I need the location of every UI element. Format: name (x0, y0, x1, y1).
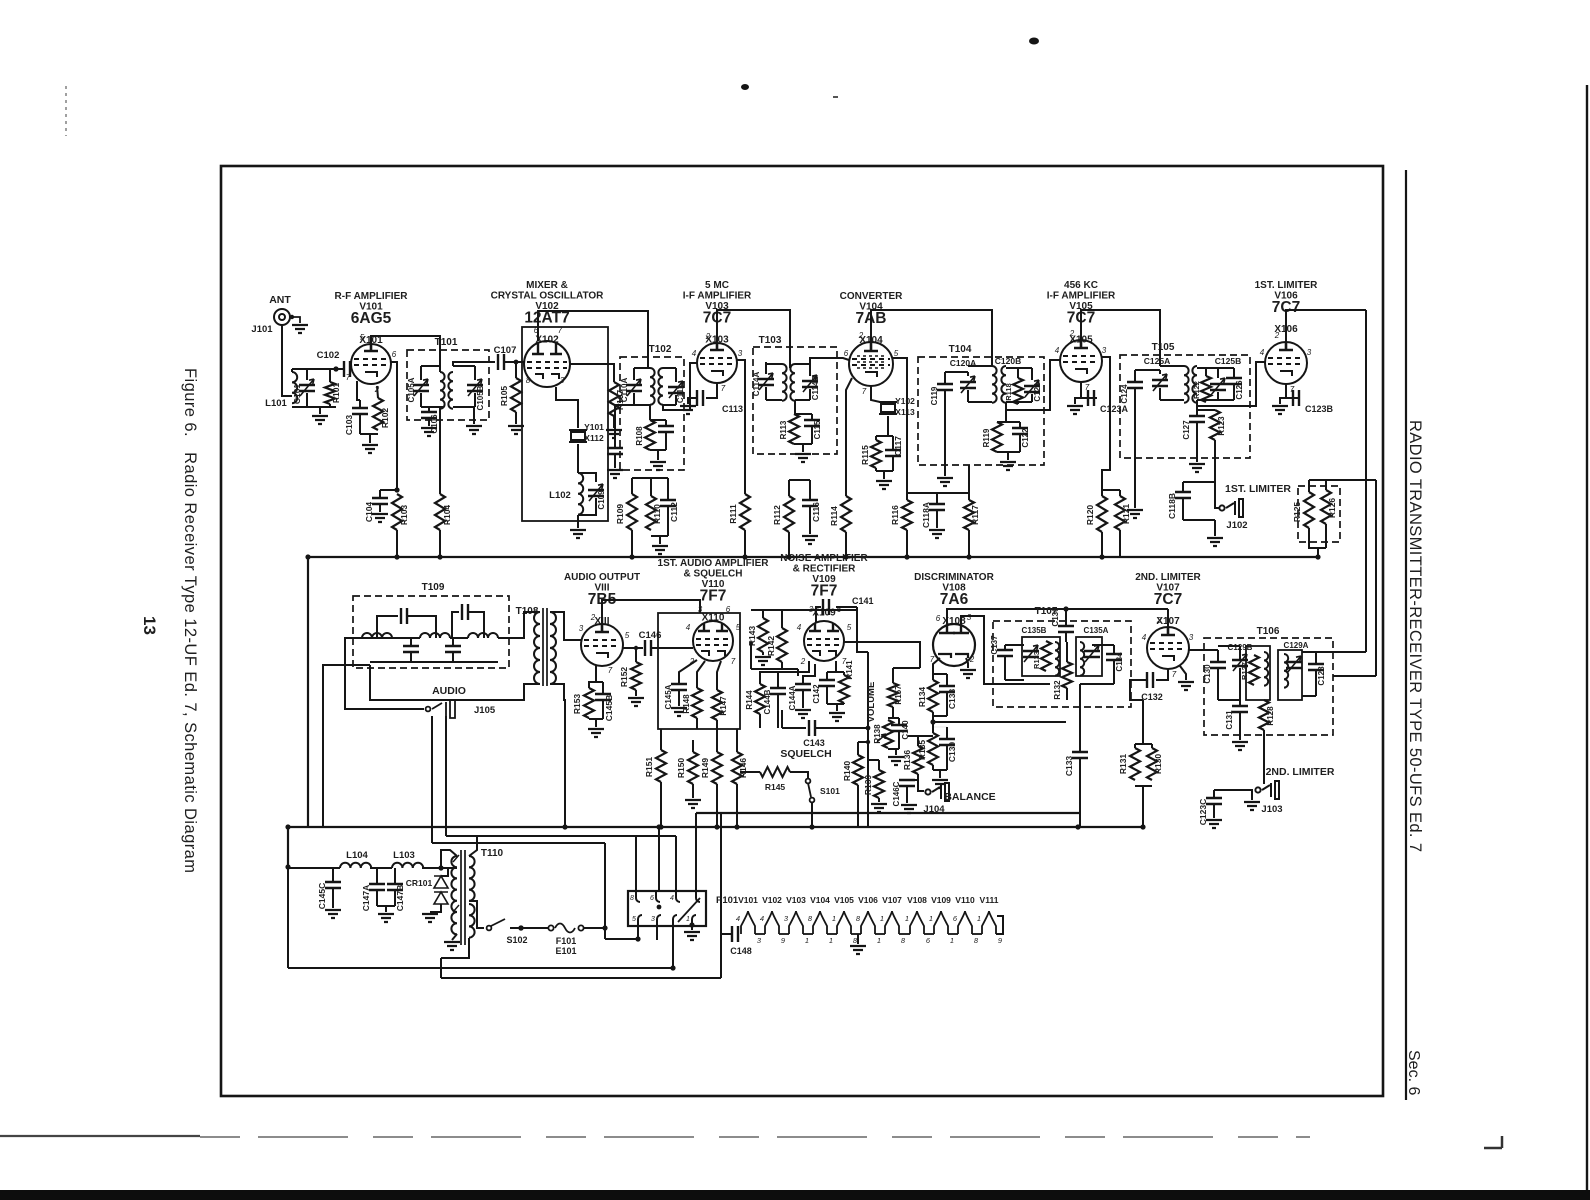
coil T104 primary (992, 366, 997, 403)
wire (602, 682, 604, 694)
svg-text:R131: R131 (1118, 754, 1128, 775)
wire (1167, 609, 1169, 627)
transformer T102 box (620, 357, 684, 470)
svg-text:C111: C111 (676, 384, 685, 403)
wire (737, 360, 745, 494)
svg-text:C125A: C125A (1144, 356, 1170, 366)
coil T102 primary (650, 368, 655, 405)
capacitor C142 (819, 680, 835, 686)
wire (843, 703, 845, 704)
wire (1113, 645, 1115, 654)
wire (997, 451, 1020, 453)
wire (595, 719, 597, 727)
wire (736, 784, 738, 827)
svg-text:I-F AMPLIFIER: I-F AMPLIFIER (683, 291, 752, 302)
svg-text:C107: C107 (494, 345, 517, 356)
wire (1302, 695, 1316, 697)
ground (850, 946, 866, 954)
wire (876, 435, 893, 437)
svg-text:4: 4 (736, 914, 740, 923)
svg-text:3: 3 (1102, 346, 1107, 355)
coil T102 secondary (658, 368, 663, 405)
wire (968, 365, 992, 367)
tube V110 7F7 (693, 621, 733, 661)
wire (1065, 609, 1067, 626)
wire (1240, 790, 1252, 800)
svg-text:R123: R123 (1217, 416, 1226, 436)
wire (906, 530, 908, 557)
wire (777, 694, 779, 728)
wire (450, 637, 468, 639)
ground (652, 546, 668, 554)
svg-text:2: 2 (1274, 331, 1280, 340)
ground (1244, 802, 1260, 810)
wire T103 to V104 (810, 358, 849, 364)
svg-text:C101: C101 (292, 384, 302, 405)
wire (469, 901, 484, 928)
wire (656, 925, 658, 940)
wire (1007, 452, 1009, 460)
volume pot arrow (877, 734, 886, 742)
wire (967, 372, 969, 376)
wire (803, 664, 815, 684)
svg-text:R125: R125 (1292, 502, 1302, 523)
wire (1183, 519, 1215, 521)
svg-text:6: 6 (726, 605, 731, 614)
capacitor C110A (variable) (626, 385, 642, 391)
wire (1119, 490, 1121, 496)
ground (606, 430, 622, 438)
wire (678, 690, 680, 706)
wire (1004, 645, 1006, 650)
svg-text:C123B: C123B (1305, 404, 1334, 414)
capacitor C123B (1293, 390, 1299, 406)
svg-text:C142: C142 (812, 684, 821, 704)
svg-text:CR101: CR101 (406, 878, 433, 888)
switch S101 (806, 779, 815, 803)
wire (1280, 398, 1293, 404)
capacitor C118B (1175, 492, 1191, 498)
converter grid screen hatch (857, 356, 885, 368)
tube V105 7C7 (1060, 340, 1102, 382)
capacitor T109 C-a (401, 608, 407, 624)
resistor R103 (392, 494, 402, 530)
svg-text:C135A: C135A (1084, 626, 1109, 635)
wire (996, 916, 1003, 934)
svg-text:DISCRIMINATOR: DISCRIMINATOR (914, 572, 994, 583)
wire (907, 492, 969, 494)
coil T107 primary (1055, 642, 1059, 676)
svg-text:C141: C141 (852, 596, 874, 606)
P101 bottom pin 7 (673, 915, 677, 925)
svg-text:V107: V107 (882, 895, 902, 905)
wire (875, 468, 877, 471)
svg-text:I-F AMPLIFIER: I-F AMPLIFIER (1047, 291, 1116, 302)
svg-text:Y102: Y102 (895, 396, 915, 406)
resistor R108 (645, 420, 655, 450)
svg-text:1: 1 (877, 936, 881, 945)
wire (1197, 367, 1218, 369)
svg-text:Sec. 6: Sec. 6 (1405, 1050, 1422, 1095)
svg-text:C125B: C125B (1215, 356, 1241, 366)
wire V101 screen down (391, 362, 397, 490)
svg-text:R111: R111 (728, 504, 738, 524)
wire (1217, 368, 1219, 378)
ground (1189, 464, 1205, 472)
svg-text:3: 3 (1307, 348, 1312, 357)
resistor R114 (841, 496, 851, 532)
wire (933, 726, 947, 728)
wire (945, 371, 968, 373)
wire (468, 612, 484, 638)
wire (469, 836, 477, 856)
svg-text:V105: V105 (834, 895, 854, 905)
svg-text:C113: C113 (722, 404, 743, 414)
wire (452, 934, 457, 940)
ground (325, 910, 341, 918)
svg-text:C132: C132 (1141, 692, 1163, 702)
tube V108 7A6 (933, 624, 975, 666)
svg-text:R103: R103 (399, 505, 409, 526)
wire (1080, 683, 1114, 685)
wire (1309, 547, 1326, 549)
wire (878, 798, 880, 802)
wire (893, 667, 920, 669)
wire (856, 607, 858, 610)
svg-text:1: 1 (905, 914, 909, 923)
wire (946, 745, 948, 770)
svg-text:3: 3 (579, 624, 584, 633)
wire (751, 668, 798, 670)
svg-text:C110A: C110A (620, 378, 629, 403)
wire (802, 444, 804, 452)
svg-text:5: 5 (632, 916, 636, 923)
ground (1207, 538, 1223, 546)
svg-text:C119: C119 (930, 386, 939, 405)
wire (777, 672, 779, 688)
svg-text:V111: V111 (980, 895, 999, 905)
wire (663, 367, 676, 369)
resistor R140 (853, 755, 863, 785)
svg-text:2ND. LIMITER: 2ND. LIMITER (1135, 572, 1201, 583)
coil T108 secondary (550, 612, 556, 684)
switch S102 (487, 919, 505, 930)
svg-text:4: 4 (670, 895, 674, 902)
wire (888, 748, 899, 750)
wire (1308, 480, 1310, 492)
coil T105 secondary (1192, 366, 1197, 403)
ground (292, 325, 308, 333)
wire (1031, 394, 1033, 402)
svg-text:T109: T109 (422, 582, 445, 593)
wire (420, 393, 422, 407)
coil T103 secondary (790, 364, 795, 401)
wire (809, 389, 811, 400)
resistor R138 (883, 720, 893, 748)
wire (396, 530, 398, 557)
wire (857, 785, 859, 827)
wire (550, 612, 581, 640)
ground (444, 942, 460, 950)
svg-text:R105: R105 (499, 386, 509, 407)
capacitor C146C (899, 780, 915, 786)
wire (474, 393, 476, 407)
capacitor C135A (variable) (1084, 651, 1100, 657)
wire (790, 772, 808, 778)
svg-text:5: 5 (625, 631, 630, 640)
svg-text:C130: C130 (1203, 664, 1212, 684)
wire (1233, 368, 1235, 378)
P101 top pin 3 (676, 892, 680, 902)
wire (1239, 668, 1241, 700)
inductor T109-1 (362, 633, 392, 638)
wire (635, 648, 637, 662)
wire (794, 400, 796, 414)
svg-text:C106: C106 (430, 414, 439, 434)
wire (827, 703, 844, 705)
capacitor C141 (823, 599, 829, 615)
wire (811, 426, 813, 444)
wire (1205, 368, 1207, 376)
wire (892, 707, 894, 718)
wire (578, 498, 596, 515)
wire (1189, 649, 1218, 651)
svg-text:T103: T103 (759, 335, 782, 346)
wire (1005, 644, 1024, 646)
wire (1197, 399, 1218, 401)
wire bus A (696, 812, 1080, 814)
wire (1075, 398, 1088, 404)
inductor T109-2 (420, 633, 450, 638)
wire (887, 416, 889, 436)
svg-text:C117: C117 (893, 436, 903, 456)
capacitor (607, 448, 623, 454)
wire (421, 406, 443, 408)
wire (1019, 434, 1021, 452)
wire (1066, 608, 1168, 610)
svg-text:NOISE AMPLIFIER: NOISE AMPLIFIER (780, 553, 868, 564)
P101 bottom pin 8 (692, 915, 696, 925)
wire (1006, 401, 1032, 403)
wire routing line (446, 835, 676, 837)
wire (1217, 650, 1219, 662)
ground (372, 514, 388, 522)
svg-text:C109: C109 (597, 490, 606, 510)
resistor R135 (928, 733, 938, 765)
wire (1119, 540, 1121, 557)
ground (312, 416, 328, 424)
svg-text:MIXER &: MIXER & (526, 280, 568, 291)
tube V103 7C7 (697, 343, 737, 383)
wire (1197, 409, 1215, 411)
resistor R152 (631, 662, 641, 690)
wire (288, 867, 340, 869)
svg-text:C138: C138 (947, 689, 957, 710)
wire tank top (292, 368, 336, 370)
wire (1156, 669, 1168, 680)
svg-text:C118A: C118A (921, 502, 931, 528)
inductor L103 (392, 863, 423, 868)
wire to P101 pin (658, 827, 660, 891)
svg-text:4: 4 (1142, 633, 1147, 642)
wire (650, 449, 666, 451)
svg-text:R128: R128 (1266, 706, 1275, 726)
wire (410, 652, 412, 662)
wire (1142, 786, 1144, 827)
svg-text:C112: C112 (669, 502, 679, 522)
resistor R112 (784, 496, 794, 532)
wire B+ bus (308, 556, 1318, 558)
capacitor C110B (variable) (668, 387, 684, 393)
wire (1325, 524, 1327, 548)
wire (421, 365, 440, 367)
svg-text:R142: R142 (766, 636, 776, 657)
wire (614, 454, 616, 468)
svg-text:C144B: C144B (763, 689, 772, 714)
capacitor C117 (885, 450, 901, 456)
antenna stub ground (292, 317, 300, 323)
wire (788, 480, 790, 496)
wire (675, 395, 677, 405)
wire (871, 386, 880, 402)
wire to P101 pin (635, 836, 637, 891)
svg-text:C118B: C118B (1167, 493, 1177, 519)
svg-text:4: 4 (686, 623, 691, 632)
capacitor C145A (671, 684, 687, 690)
wire (377, 386, 378, 398)
svg-text:R101: R101 (331, 383, 341, 404)
wire (835, 661, 837, 672)
svg-text:R120: R120 (1085, 505, 1095, 526)
svg-text:R149: R149 (700, 758, 710, 779)
coil T105 primary (1184, 366, 1189, 403)
capacitor C147A (369, 884, 385, 890)
transformer T101 box (407, 350, 489, 420)
capacitor C138 (939, 686, 955, 692)
wire (667, 506, 669, 536)
svg-text:C145B: C145B (604, 695, 614, 721)
resistor R119 (992, 422, 1002, 452)
svg-text:2: 2 (1069, 329, 1075, 338)
resistor R147 (712, 690, 722, 720)
svg-text:J101: J101 (251, 324, 273, 335)
capacitor C106 (421, 412, 437, 418)
svg-text:R127: R127 (1240, 662, 1249, 680)
svg-text:V106: V106 (858, 895, 878, 905)
svg-text:V101: V101 (738, 895, 758, 905)
wire (370, 867, 392, 869)
resistor R123 (1210, 410, 1220, 440)
wire (1183, 481, 1215, 483)
wire (944, 390, 946, 476)
wire (1239, 712, 1241, 740)
capacitor C140 (891, 725, 907, 731)
capacitor C103 (352, 408, 368, 414)
wire (946, 692, 948, 716)
svg-text:L101: L101 (265, 398, 287, 409)
wire (1196, 422, 1198, 462)
svg-text:C122: C122 (1021, 428, 1030, 448)
wire (908, 735, 933, 737)
wire (765, 362, 767, 374)
wire (515, 362, 517, 378)
T107 shield sub-box 1 (1022, 637, 1060, 676)
wire (360, 433, 378, 435)
svg-text:R151: R151 (644, 757, 654, 778)
svg-text:7: 7 (1172, 670, 1177, 679)
wire (716, 720, 718, 729)
wire (464, 850, 466, 945)
capacitor C102 (344, 361, 350, 377)
svg-text:R118: R118 (1004, 383, 1013, 401)
ground (937, 478, 953, 486)
svg-text:1: 1 (832, 914, 836, 923)
ground (795, 710, 811, 718)
svg-text:X112: X112 (584, 433, 604, 443)
P101 top pin 2 (656, 892, 660, 902)
wire (1325, 480, 1327, 490)
svg-text:CRYSTAL OSCILLATOR: CRYSTAL OSCILLATOR (491, 291, 605, 302)
transformer T107 box (993, 621, 1131, 707)
svg-text:12AT7: 12AT7 (524, 310, 569, 327)
wire V102 plate to T102 (538, 311, 648, 368)
wire (440, 860, 442, 868)
wire (1005, 679, 1024, 681)
inductor L101 (292, 372, 297, 403)
svg-text:J102: J102 (1226, 520, 1247, 531)
capacitor C144A (795, 684, 811, 690)
wire to P101 pin (675, 836, 677, 891)
wire (893, 358, 907, 500)
wire (439, 420, 441, 494)
svg-text:6: 6 (650, 895, 654, 902)
wire (430, 904, 441, 912)
wire (1309, 528, 1318, 557)
svg-text:R108: R108 (635, 426, 644, 446)
svg-text:R140: R140 (842, 761, 852, 782)
wire (623, 647, 643, 649)
svg-text:T110: T110 (481, 848, 504, 859)
wire (1218, 399, 1234, 401)
wire (906, 786, 908, 803)
resistor R141 (839, 675, 849, 703)
wire (359, 400, 361, 408)
resistor R132 (1062, 662, 1072, 688)
resistor R105 (511, 378, 521, 412)
svg-text:V102: V102 (762, 895, 782, 905)
svg-text:C121: C121 (1033, 382, 1042, 402)
wire (795, 363, 810, 365)
svg-text:1ST. LIMITER: 1ST. LIMITER (1255, 280, 1319, 291)
junction (634, 646, 638, 650)
ground (932, 780, 948, 788)
svg-text:C144A: C144A (788, 685, 797, 710)
svg-text:C145C: C145C (317, 883, 327, 909)
wire (892, 456, 894, 471)
wire (453, 365, 475, 367)
wire antenna down (282, 325, 292, 396)
svg-text:R146: R146 (738, 758, 748, 779)
jack J104 (925, 783, 949, 801)
wire (410, 638, 412, 646)
capacitor C101 (variable) (299, 385, 315, 391)
wire (651, 647, 693, 649)
svg-text:L103: L103 (393, 850, 415, 861)
capacitor C123A (1088, 390, 1094, 406)
svg-text:AUDIO: AUDIO (432, 685, 466, 697)
junction (514, 360, 519, 365)
wire (844, 642, 920, 668)
